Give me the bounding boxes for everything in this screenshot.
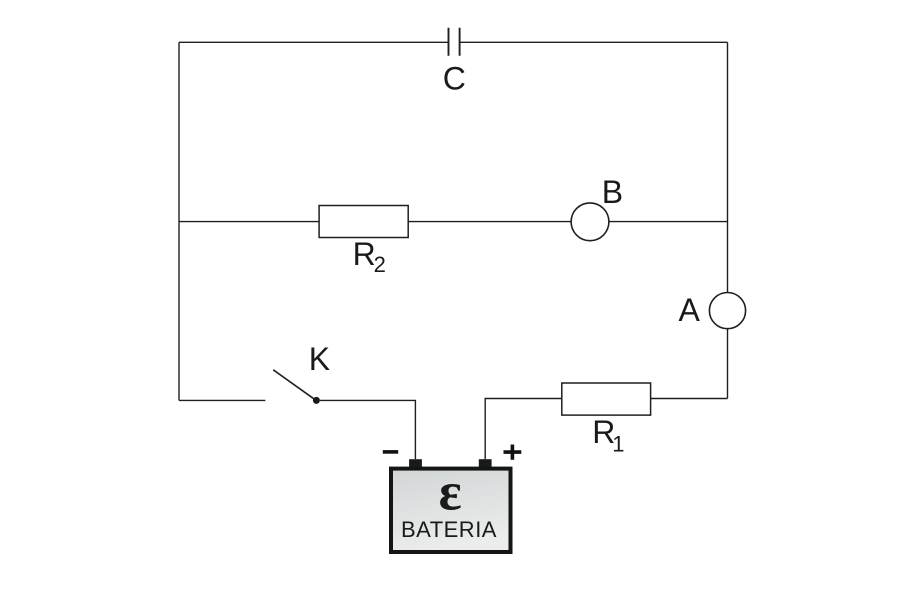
svg-text:R: R — [353, 236, 376, 272]
svg-text:2: 2 — [374, 252, 386, 277]
wire bottom-left (left vertical to switch) — [179, 399, 265, 401]
wire middle-center (R2 to lamp B) — [408, 221, 571, 223]
label R1 — [592, 414, 624, 457]
svg-text:ε: ε — [439, 462, 462, 522]
svg-text:B: B — [602, 174, 623, 210]
label minus sign — [383, 450, 398, 454]
wire right vertical upper — [727, 42, 729, 292]
wire top-right horizontal (from capacitor) — [460, 41, 728, 43]
capacitor C plates — [449, 28, 460, 56]
wire left vertical — [178, 42, 180, 400]
label R2 — [353, 236, 386, 277]
svg-text:BATERIA: BATERIA — [401, 517, 497, 542]
switch K lever — [273, 370, 315, 400]
battery E body — [391, 469, 511, 552]
battery positive terminal tab — [479, 459, 492, 467]
svg-text:K: K — [309, 341, 330, 377]
wire switch to battery minus corner — [320, 400, 416, 459]
svg-text:1: 1 — [612, 432, 624, 457]
battery negative terminal tab — [409, 459, 422, 467]
switch K pivot dot — [313, 397, 320, 404]
wire R1 to battery plus corner — [485, 399, 562, 460]
wire middle-left (node to R2) — [179, 221, 319, 223]
wire middle-right (lamp B to right vertical) — [609, 221, 728, 223]
lamp B — [571, 203, 609, 241]
svg-text:A: A — [679, 292, 701, 328]
svg-text:C: C — [443, 61, 466, 97]
resistor R2 — [319, 206, 408, 238]
ammeter A — [709, 293, 745, 329]
wire top-left horizontal (to capacitor) — [179, 41, 449, 43]
wire bottom-right corner (right vertical to R1) — [651, 398, 728, 400]
resistor R1 — [562, 383, 651, 415]
label plus sign — [504, 445, 522, 460]
wire right vertical lower — [727, 329, 729, 399]
